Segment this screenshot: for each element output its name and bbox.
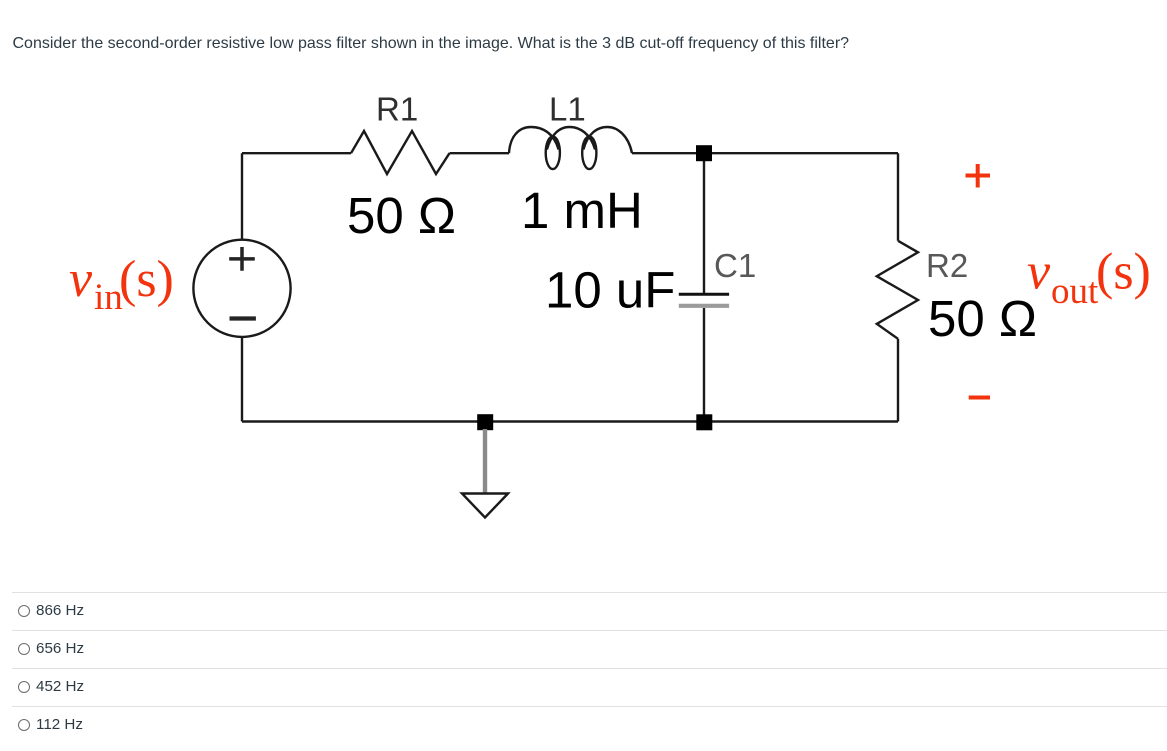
- svg-text:50 Ω: 50 Ω: [928, 290, 1037, 347]
- svg-text:1 mH: 1 mH: [521, 182, 643, 239]
- svg-text:10 uF: 10 uF: [545, 262, 675, 319]
- svg-text:v: v: [1027, 244, 1051, 301]
- svg-text:out: out: [1051, 271, 1099, 312]
- svg-text:C1: C1: [714, 247, 756, 284]
- svg-text:50 Ω: 50 Ω: [347, 187, 456, 244]
- svg-text:(s): (s): [119, 251, 174, 308]
- svg-text:v: v: [69, 251, 93, 308]
- svg-text:L1: L1: [549, 91, 586, 128]
- svg-text:R2: R2: [926, 247, 968, 284]
- svg-text:R1: R1: [376, 91, 418, 128]
- svg-text:(s): (s): [1096, 244, 1151, 301]
